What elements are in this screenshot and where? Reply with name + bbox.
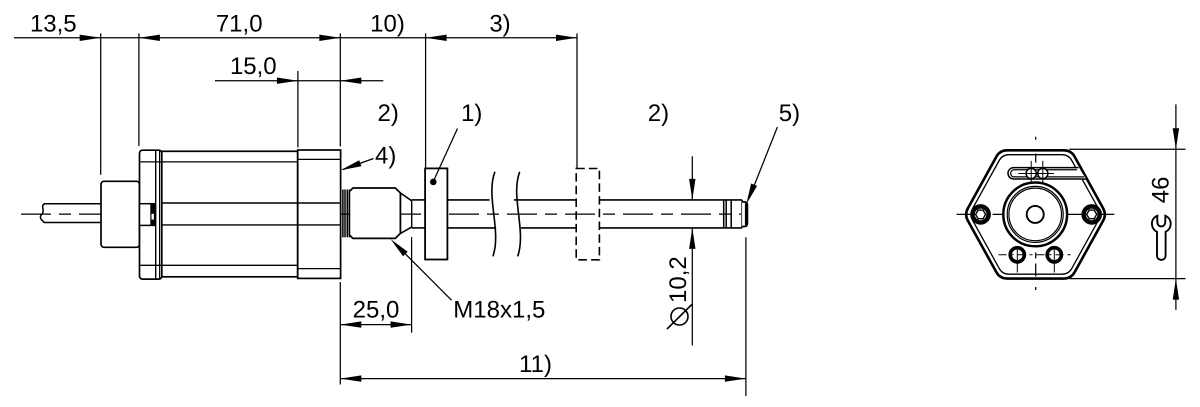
- rod tip thick edge: [745, 203, 747, 225]
- extension line x=425.6: [425, 33, 427, 168]
- svg-text:11): 11): [519, 351, 552, 378]
- arrow 4): [341, 160, 362, 170]
- inner tube line top: [162, 202, 341, 204]
- taper cone bottom: [400, 227, 411, 233]
- svg-text:1): 1): [461, 100, 482, 127]
- 46 extension bottom: [1069, 278, 1185, 280]
- dimension line 15,0: [215, 80, 383, 82]
- svg-text:13,5: 13,5: [30, 11, 77, 38]
- svg-text:15,0: 15,0: [230, 53, 277, 80]
- latch dark detail lower: [151, 220, 154, 226]
- 46 dimension line: [1175, 104, 1177, 310]
- housing right cap: [298, 150, 341, 278]
- hexagon inner: [971, 155, 1100, 275]
- magnet 2 dashed: [576, 169, 599, 260]
- latch inner line: [150, 205, 152, 226]
- M18 nut: [349, 188, 400, 238]
- big circle threads: [1007, 186, 1063, 242]
- rod top line segments: [412, 199, 742, 201]
- nut right face: [399, 193, 401, 233]
- svg-text:M18x1,5: M18x1,5: [453, 296, 545, 323]
- leader 1): [434, 129, 457, 180]
- 46 arrow top: [1173, 128, 1179, 149]
- svg-text:10,2: 10,2: [665, 256, 692, 303]
- svg-text:2): 2): [378, 100, 399, 127]
- top dimension line: [14, 37, 577, 39]
- arrow 15,0 right: [340, 78, 361, 84]
- svg-text:2): 2): [648, 100, 669, 127]
- taper cone top: [400, 193, 411, 201]
- arrow 13,5 left: [80, 35, 101, 41]
- slot: [1008, 168, 1086, 179]
- rod tip joint line: [741, 200, 743, 228]
- extension line x=100.7: [100, 33, 102, 174]
- big circle thick: [1003, 183, 1067, 247]
- extension line x=297.9: [297, 71, 299, 148]
- arrow 15,0 left: [277, 78, 298, 84]
- flange cap left: [140, 150, 162, 279]
- inner tube line bottom: [162, 224, 341, 226]
- cap inner line 2: [159, 150, 161, 279]
- cable: [40, 204, 101, 223]
- svg-text:3): 3): [489, 11, 510, 38]
- svg-text:5): 5): [779, 100, 800, 127]
- arrow 3) right: [556, 35, 577, 41]
- 46 arrow bottom: [1173, 279, 1179, 300]
- rod end ring lines: [724, 200, 732, 228]
- dimension 11): [340, 378, 746, 380]
- left bolt: [972, 206, 989, 223]
- leader 5): [750, 127, 778, 197]
- position magnet 1: [425, 168, 447, 259]
- rod bottom line segments: [412, 227, 742, 229]
- break line 2: [517, 172, 521, 257]
- bottom holes center lines: [999, 247, 1074, 273]
- rod tip cap: [742, 202, 747, 227]
- center line: [21, 213, 741, 215]
- housing band bottom: [141, 264, 298, 266]
- wrench icon: [1152, 216, 1171, 260]
- magnet reference dot: [430, 179, 437, 186]
- leader M18: [394, 243, 452, 301]
- 46 extension top: [1069, 148, 1185, 150]
- extension line x=577: [576, 33, 578, 168]
- diameter symbol: [667, 304, 692, 329]
- slot circle center lines: [1018, 161, 1054, 187]
- dia 10,2 dimension lower: [691, 228, 693, 346]
- extension line x=340.3 top: [339, 33, 341, 146]
- housing band top: [141, 161, 298, 163]
- latch dark detail upper: [151, 204, 154, 214]
- right cap band bottom: [298, 268, 341, 270]
- slot circle right: [1038, 168, 1048, 178]
- connector block: [101, 181, 140, 247]
- break line 1: [492, 172, 496, 257]
- connector latch: [140, 204, 155, 226]
- extension x=340.3 bottom: [339, 282, 341, 385]
- bottom hole left: [1010, 248, 1024, 262]
- dimension 25,0: [340, 324, 411, 326]
- hexagon outer: [966, 150, 1105, 278]
- arrow 71,0 left: [139, 35, 160, 41]
- svg-text:71,0: 71,0: [216, 11, 263, 38]
- svg-text:46: 46: [1148, 176, 1175, 203]
- right bolt: [1083, 206, 1100, 223]
- slot inner: [1011, 170, 1085, 177]
- slot circle left: [1026, 168, 1036, 178]
- taper joint: [411, 201, 413, 227]
- cap inner line 1: [155, 150, 157, 279]
- arrow 3) left: [426, 35, 447, 41]
- arrow 71,0 right: [319, 35, 340, 41]
- svg-text:10): 10): [370, 11, 405, 38]
- right cap band top: [298, 158, 341, 160]
- extension x=411.6: [411, 237, 413, 333]
- svg-text:4): 4): [375, 143, 396, 170]
- arrow M18: [391, 239, 408, 256]
- housing cylinder: [162, 151, 298, 276]
- center hole: [1027, 206, 1044, 223]
- svg-text:25,0: 25,0: [353, 296, 400, 323]
- thread relief rings: [343, 190, 350, 238]
- extension x=745.9: [745, 237, 747, 396]
- extension line x=138.9: [138, 33, 140, 146]
- arrow 5): [746, 184, 757, 205]
- bottom hole right: [1047, 248, 1061, 262]
- right cap rod lines: [298, 202, 341, 204]
- leader 4): [343, 159, 374, 170]
- dia 10,2 dimension upper: [691, 156, 693, 200]
- hex center lines: [957, 137, 1115, 290]
